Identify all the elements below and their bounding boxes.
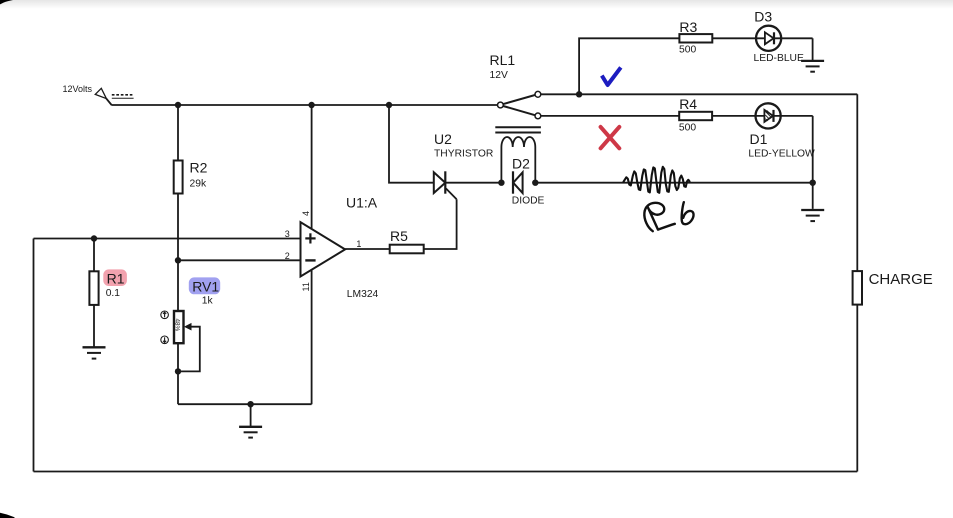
thyristor U2 — [434, 172, 446, 193]
potentiometer RV1 — [174, 311, 184, 343]
svg-text:R2: R2 — [190, 160, 208, 176]
svg-text:48%: 48% — [173, 319, 180, 332]
wire thyristor to D2 — [445, 182, 501, 184]
svg-text:D1: D1 — [750, 131, 768, 147]
svg-text:U2: U2 — [434, 131, 452, 147]
wire R1 bottom to ground — [93, 305, 95, 347]
node coil right — [532, 180, 538, 186]
svg-text:500: 500 — [679, 123, 696, 134]
node pin2 tee — [175, 257, 181, 263]
wire pot wiper — [178, 327, 200, 372]
annotation blue check — [602, 67, 621, 85]
node rail-R2 — [175, 102, 181, 108]
svg-text:3: 3 — [285, 229, 290, 239]
RV1 down circle — [161, 336, 169, 344]
svg-text:CHARGE: CHARGE — [869, 271, 933, 288]
svg-text:LED-BLUE: LED-BLUE — [754, 53, 804, 64]
node wiper return — [175, 368, 181, 374]
svg-text:4: 4 — [301, 211, 311, 216]
svg-text:R4: R4 — [679, 96, 697, 112]
resistor R4 — [679, 112, 712, 120]
diode D2 — [513, 172, 522, 193]
svg-text:DIODE: DIODE — [512, 196, 545, 207]
wire pin3 net — [34, 238, 301, 240]
wire thyristor gate diagonal — [446, 189, 457, 200]
ground D3 — [801, 61, 824, 72]
resistor R2 — [174, 161, 183, 194]
12Volts input triangle — [95, 88, 106, 98]
relay coil U-arcs — [501, 137, 535, 147]
svg-text:R5: R5 — [390, 228, 408, 244]
svg-text:LED-YELLOW: LED-YELLOW — [748, 148, 815, 159]
wire lower contact to R4 — [541, 115, 679, 117]
wire right vertical lower — [856, 305, 858, 472]
node pin3-R1 — [91, 235, 97, 241]
svg-text:1: 1 — [356, 239, 361, 249]
RV1 wiper arrowhead — [184, 323, 192, 331]
fuse CHARGE — [853, 271, 862, 305]
wire relay coil right leg — [534, 147, 536, 183]
wire bottom rail — [34, 471, 858, 473]
node coil left — [498, 180, 504, 186]
wire pin1 to R5 — [345, 248, 390, 250]
wire R3 to D3 to ground corner — [712, 37, 812, 39]
annotation handwritten b — [682, 202, 694, 224]
wire 12V source diagonal — [106, 98, 111, 105]
wire pin2 net — [178, 259, 301, 261]
wire left vertical — [33, 239, 35, 472]
ground D1 — [801, 210, 824, 221]
relay switch pole — [503, 95, 535, 104]
svg-text:RL1: RL1 — [490, 52, 516, 68]
node upper contact / R3 riser — [576, 91, 582, 97]
wire D1 down to junction and ground — [812, 116, 814, 209]
node D1-R6 — [810, 180, 816, 186]
wire pot to bottom — [177, 343, 179, 404]
resistor R5 — [390, 245, 424, 254]
wire R5 to gate — [424, 199, 457, 249]
wire R1 top — [93, 239, 95, 272]
svg-text:D3: D3 — [754, 9, 772, 25]
wire R2 to pot — [177, 194, 179, 312]
ground RV1 — [239, 427, 262, 438]
relay core bars — [495, 126, 541, 128]
annotation red X — [601, 127, 620, 148]
resistor R3 — [679, 34, 712, 42]
wire main 12V rail — [111, 104, 497, 106]
wire R2/RV1 vertical upper — [177, 105, 179, 161]
svg-text:29k: 29k — [190, 179, 207, 190]
svg-text:500: 500 — [679, 44, 696, 55]
wire junction up to R3 — [579, 38, 679, 94]
svg-text:THYRISTOR: THYRISTOR — [434, 149, 493, 160]
svg-text:12V: 12V — [490, 70, 508, 81]
wire right vertical upper — [856, 94, 858, 271]
node rail-pin4 — [308, 102, 314, 108]
wire bottom ground run — [178, 403, 312, 405]
annotation hand-drawn resistor R6 — [624, 167, 690, 193]
ground R1 — [83, 347, 106, 358]
wire pin 11 vertical — [311, 270, 313, 405]
wire relay coil left leg — [500, 147, 502, 183]
wire rail to thyristor — [389, 105, 434, 183]
resistor R1 — [89, 271, 98, 305]
wire D3 ground stem — [812, 38, 814, 60]
svg-text:LM324: LM324 — [347, 289, 379, 300]
annotation handwritten R — [644, 203, 674, 231]
LED D3 — [756, 26, 781, 51]
svg-text:RV1: RV1 — [192, 279, 219, 295]
svg-text:0.1: 0.1 — [106, 288, 121, 299]
wire ground stem RV1 — [250, 404, 252, 426]
op-amp U1:A — [301, 222, 346, 276]
node rail-thyristor — [386, 102, 392, 108]
wire pin 4 vertical — [311, 105, 313, 230]
svg-text:11: 11 — [301, 282, 311, 291]
wire R4 to D1 — [712, 115, 813, 117]
12Volts dashed marker — [112, 94, 133, 96]
LED D1 — [756, 103, 781, 128]
svg-text:U1:A: U1:A — [346, 194, 378, 210]
svg-text:1k: 1k — [202, 295, 214, 306]
svg-text:D2: D2 — [512, 156, 530, 172]
svg-text:R1: R1 — [107, 271, 125, 287]
svg-text:12Volts: 12Volts — [63, 84, 93, 94]
wire upper contact net — [541, 93, 858, 95]
svg-text:2: 2 — [285, 251, 290, 261]
wire D2 to right junction — [535, 182, 812, 184]
svg-text:R3: R3 — [679, 19, 697, 35]
node ground tee — [247, 401, 253, 407]
decorative corner marks — [0, 0, 13, 4]
RV1 up circle — [161, 311, 169, 344]
